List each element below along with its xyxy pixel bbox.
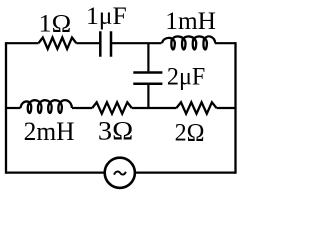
wire top capacitor-inductor — [112, 42, 162, 44]
wire middle resistor-resistor — [132, 107, 177, 109]
wire middle resistor-right — [217, 107, 236, 109]
inductor 1mH — [162, 36, 215, 49]
ac source circle — [105, 158, 135, 188]
wire capacitor branch upper — [147, 43, 149, 71]
wire top-left — [6, 42, 39, 44]
wire bottom-left — [6, 172, 105, 174]
wire right — [234, 42, 236, 174]
svg-text:1mH: 1mH — [165, 8, 216, 35]
ac source tilde — [114, 172, 126, 175]
resistor 3ohm — [92, 102, 132, 113]
svg-text:2mH: 2mH — [24, 117, 75, 146]
resistor 2ohm — [176, 102, 216, 113]
svg-text:1μF: 1μF — [86, 3, 127, 30]
capacitor 2uF plates — [133, 73, 162, 84]
wire capacitor branch lower — [147, 85, 149, 108]
svg-text:1Ω: 1Ω — [39, 11, 72, 38]
svg-text:3Ω: 3Ω — [98, 117, 133, 146]
inductor 2mH — [21, 100, 73, 113]
wire left — [5, 42, 7, 174]
wire top inductor-right — [215, 42, 236, 44]
svg-text:2Ω: 2Ω — [175, 120, 205, 147]
svg-text:2μF: 2μF — [167, 63, 205, 90]
wire middle inductor-resistor — [72, 107, 92, 109]
wire bottom-right — [135, 172, 236, 174]
resistor 1ohm — [39, 38, 77, 49]
wire middle left — [6, 107, 21, 109]
wire top resistor-capacitor — [76, 42, 99, 44]
capacitor 1uF plates — [100, 31, 111, 57]
